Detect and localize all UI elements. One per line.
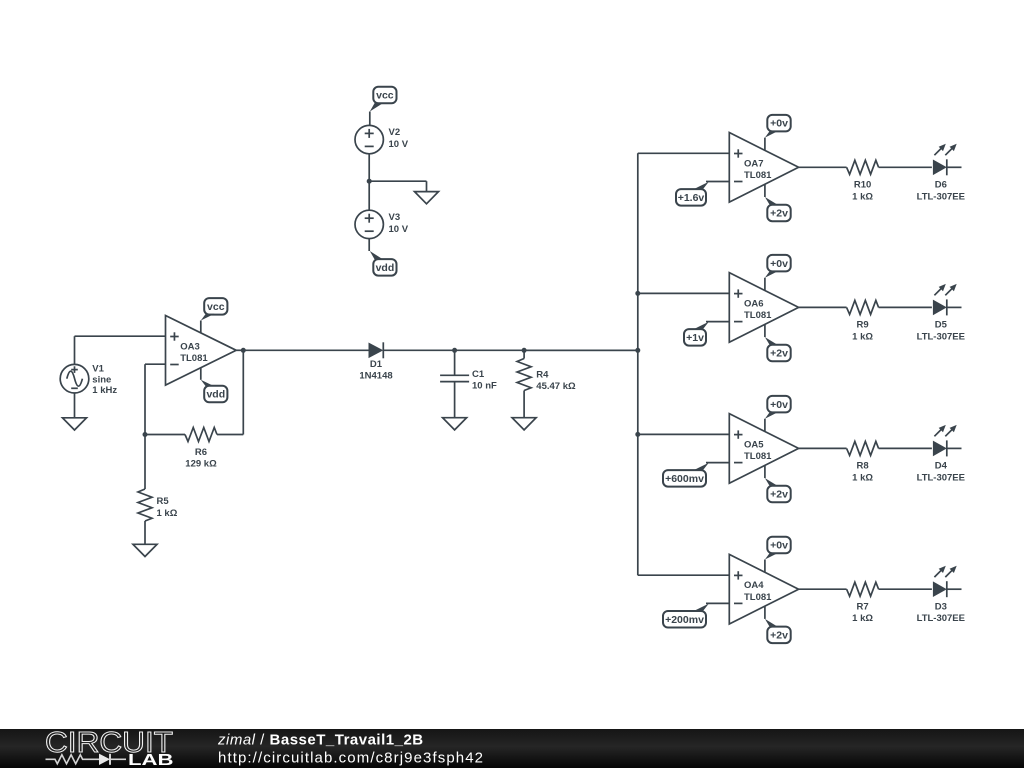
svg-text:10 V: 10 V — [389, 139, 409, 150]
svg-text:10 V: 10 V — [389, 224, 409, 235]
svg-text:vdd: vdd — [206, 389, 225, 401]
svg-text:OA7: OA7 — [744, 158, 764, 169]
svg-text:TL081: TL081 — [744, 310, 772, 321]
net flag +0v — [765, 115, 791, 138]
logo resistor-diode squiggle — [46, 754, 127, 765]
wire — [369, 112, 371, 126]
svg-text:http://circuitlab.com/c8rj9e3f: http://circuitlab.com/c8rj9e3fsph42 — [218, 750, 484, 767]
svg-text:TL081: TL081 — [744, 170, 772, 181]
op-amp OA4 — [729, 554, 798, 624]
svg-text:V3: V3 — [389, 212, 401, 223]
wire +0v pin OA7 — [764, 138, 766, 151]
diode D1 — [359, 342, 392, 381]
wire — [638, 574, 730, 576]
net flag +2v — [765, 337, 791, 361]
svg-text:OA4: OA4 — [744, 580, 764, 591]
wire — [74, 336, 76, 364]
svg-text:45.47 kΩ: 45.47 kΩ — [536, 381, 576, 392]
op-amp OA7 — [729, 133, 798, 203]
junction C1 top — [452, 348, 457, 353]
svg-text:129 kΩ: 129 kΩ — [185, 459, 217, 470]
svg-text:sine: sine — [92, 374, 111, 385]
wire — [706, 602, 729, 604]
svg-text:+0v: +0v — [770, 258, 788, 270]
wire — [369, 180, 426, 182]
junction power mid node — [367, 179, 372, 184]
wire — [524, 349, 638, 351]
wire +0v pin OA6 — [764, 278, 766, 291]
svg-text:+2v: +2v — [770, 208, 788, 220]
wire — [799, 447, 847, 449]
svg-text:vcc: vcc — [207, 301, 225, 313]
wire — [523, 350, 525, 358]
wire — [368, 181, 370, 210]
wire — [879, 447, 932, 449]
svg-text:+1v: +1v — [686, 332, 704, 344]
svg-text:1 kΩ: 1 kΩ — [852, 613, 873, 624]
net flag vdd — [201, 380, 228, 403]
resistor R9 — [847, 300, 879, 342]
wire +2v pin OA7 — [764, 184, 766, 197]
resistor R10 — [847, 160, 879, 202]
svg-text:LTL-307EE: LTL-307EE — [917, 613, 965, 624]
svg-text:+0v: +0v — [770, 399, 788, 411]
wire vdd pin — [200, 368, 202, 380]
LED D4 — [917, 425, 965, 484]
wire vcc pin — [200, 321, 202, 333]
op-amp OA6 — [729, 273, 798, 343]
svg-text:OA5: OA5 — [744, 439, 764, 450]
wire — [145, 363, 166, 365]
wire — [368, 154, 370, 181]
junction bus OA6 — [635, 291, 640, 296]
ground R4 — [512, 418, 536, 430]
wire — [236, 349, 243, 351]
wire +0v pin OA5 — [764, 419, 766, 432]
resistor R8 — [847, 441, 879, 483]
ground V1 — [63, 418, 87, 430]
svg-text:D3: D3 — [935, 602, 947, 613]
net flag +2v — [765, 478, 791, 502]
svg-text:TL081: TL081 — [744, 451, 772, 462]
net flag +1.6v — [676, 182, 709, 206]
svg-text:vdd: vdd — [376, 262, 395, 274]
wire — [426, 181, 428, 191]
net flag vdd — [370, 251, 397, 276]
capacitor C1 — [440, 369, 497, 392]
wire — [947, 588, 962, 590]
svg-text:LAB: LAB — [128, 752, 174, 768]
wire — [947, 447, 962, 449]
svg-text:LTL-307EE: LTL-307EE — [917, 191, 965, 202]
svg-text:1 kΩ: 1 kΩ — [852, 191, 873, 202]
wire +2v pin OA4 — [764, 606, 766, 619]
junction R4 top — [522, 348, 527, 353]
wire — [74, 393, 76, 418]
junction OA3 output — [241, 348, 246, 353]
net flag +0v — [765, 255, 791, 278]
wire — [947, 306, 962, 308]
svg-text:OA3: OA3 — [180, 341, 200, 352]
svg-text:1 kΩ: 1 kΩ — [852, 472, 873, 483]
svg-text:TL081: TL081 — [744, 592, 772, 603]
svg-text:1N4148: 1N4148 — [359, 371, 392, 382]
wire — [454, 350, 456, 375]
LED D3 — [917, 566, 965, 625]
ground R5 — [133, 544, 157, 556]
svg-text:R7: R7 — [857, 602, 869, 613]
wire — [383, 349, 638, 351]
voltage source V3 — [355, 210, 409, 238]
net flag +1v — [684, 322, 709, 346]
svg-text:1 kΩ: 1 kΩ — [157, 508, 178, 519]
svg-text:OA6: OA6 — [744, 298, 764, 309]
wire — [799, 166, 847, 168]
junction bus OA5 — [635, 432, 640, 437]
net flag vcc — [370, 87, 397, 112]
svg-text:LTL-307EE: LTL-307EE — [917, 331, 965, 342]
svg-text:R5: R5 — [157, 496, 170, 507]
wire — [706, 462, 729, 464]
wire +2v pin OA6 — [764, 324, 766, 337]
net flag +2v — [765, 197, 791, 221]
svg-text:10 nF: 10 nF — [472, 381, 497, 392]
svg-text:+2v: +2v — [770, 489, 788, 501]
svg-text:+200mv: +200mv — [665, 614, 704, 626]
junction bus main — [635, 348, 640, 353]
resistor R4 — [517, 359, 576, 393]
svg-text:1 kHz: 1 kHz — [92, 385, 117, 396]
resistor R5 — [138, 489, 178, 521]
svg-text:+2v: +2v — [770, 348, 788, 360]
voltage source V2 — [355, 125, 409, 153]
net flag +200mv — [663, 604, 709, 628]
wire +0v pin OA4 — [764, 560, 766, 573]
svg-text:R9: R9 — [857, 320, 869, 331]
wire — [144, 435, 146, 490]
svg-text:D4: D4 — [935, 461, 948, 472]
wire — [145, 434, 185, 436]
wire +2v pin OA5 — [764, 465, 766, 478]
wire — [706, 181, 729, 183]
resistor R7 — [847, 582, 879, 624]
wire — [638, 433, 730, 435]
wire — [706, 321, 729, 323]
svg-text:zimal / BasseT_Travail1_2B: zimal / BasseT_Travail1_2B — [217, 732, 424, 749]
wire — [638, 292, 730, 294]
svg-text:C1: C1 — [472, 369, 485, 380]
wire — [523, 391, 525, 418]
svg-text:+0v: +0v — [770, 540, 788, 552]
junction feedback node — [143, 432, 148, 437]
svg-text:V1: V1 — [92, 364, 104, 375]
op-amp OA3 — [166, 316, 237, 386]
ground C1 — [443, 418, 467, 430]
svg-text:+1.6v: +1.6v — [678, 192, 705, 204]
wire — [144, 364, 146, 434]
svg-text:D5: D5 — [935, 320, 948, 331]
svg-text:R8: R8 — [857, 461, 869, 472]
svg-text:+0v: +0v — [770, 118, 788, 130]
net flag +0v — [765, 537, 791, 560]
wire — [638, 152, 730, 154]
LED D5 — [917, 284, 965, 343]
svg-text:TL081: TL081 — [180, 353, 208, 364]
wire — [879, 306, 932, 308]
wire — [243, 349, 368, 351]
wire — [454, 382, 456, 418]
wire bus vertical — [637, 153, 639, 575]
wire — [947, 166, 962, 168]
wire — [144, 521, 146, 544]
wire — [799, 306, 847, 308]
voltage source V1 (sine) — [60, 364, 117, 396]
svg-text:V2: V2 — [389, 127, 401, 138]
wire — [75, 335, 166, 337]
wire — [242, 350, 244, 434]
wire — [879, 166, 932, 168]
net flag +2v — [765, 619, 791, 643]
svg-text:+600mv: +600mv — [665, 473, 704, 485]
op-amp OA5 — [729, 414, 798, 484]
svg-text:D6: D6 — [935, 180, 947, 191]
svg-text:LTL-307EE: LTL-307EE — [917, 472, 965, 483]
svg-text:R10: R10 — [854, 180, 871, 191]
svg-text:R4: R4 — [536, 370, 549, 381]
svg-text:+2v: +2v — [770, 629, 788, 641]
LED D6 — [917, 144, 965, 203]
net flag +0v — [765, 396, 791, 419]
wire — [217, 434, 243, 436]
wire — [799, 588, 847, 590]
resistor R6 — [185, 428, 217, 470]
net flag +600mv — [663, 463, 709, 487]
wire — [368, 239, 370, 251]
svg-text:1 kΩ: 1 kΩ — [852, 331, 873, 342]
svg-text:D1: D1 — [370, 359, 383, 370]
svg-text:vcc: vcc — [376, 90, 394, 102]
wire — [879, 588, 932, 590]
net flag vcc — [201, 298, 228, 320]
ground power — [415, 192, 439, 204]
svg-text:R6: R6 — [195, 447, 207, 458]
